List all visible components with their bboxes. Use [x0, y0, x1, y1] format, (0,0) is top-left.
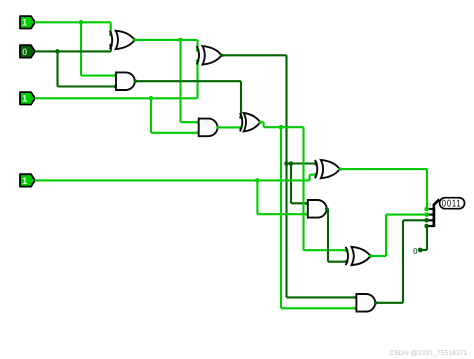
wire U7 output horizontal [369, 254, 386, 257]
svg-text:0: 0 [428, 203, 431, 209]
wire P0 branch to AND1 lower input [58, 85, 118, 89]
node junction on P1 wire [79, 20, 84, 25]
node junction on U5 output [279, 125, 284, 130]
wire U2 output down to XOR3 upper input [239, 81, 243, 119]
wire P2 horizontal [35, 97, 198, 99]
svg-text:1: 1 [22, 176, 28, 187]
wire U5x output elbow [325, 207, 329, 211]
wire dark elbow to AND6 upper input [287, 296, 358, 300]
node junction on dark horizontal [289, 161, 294, 166]
wire constant to splitter bit3 [420, 226, 427, 250]
input pin P2 value 1 [20, 92, 35, 105]
input pin P0 value 0 [20, 45, 35, 58]
wire dark branch to AND5 upper input [291, 202, 309, 206]
wire U5 output to XOR7 upper input [304, 249, 349, 253]
wire U2 output horizontal [134, 80, 241, 83]
and-gate U2 [116, 72, 135, 90]
wire P2 branch to AND2 lower input [151, 131, 200, 135]
wire U1 branch to AND2 upper input [181, 120, 201, 124]
wire dark branch down at x291 [290, 164, 292, 204]
splitter leg label 0 [428, 203, 431, 209]
wire P2 branch vertical at x151 [150, 98, 152, 133]
wire dark to XOR6 upper input [287, 162, 318, 166]
wire U1 output horizontal [134, 38, 198, 41]
svg-text:1: 1 [22, 18, 28, 29]
node splitter bit0 [424, 207, 429, 212]
node splitter bit2 [424, 218, 429, 223]
wire P3 riser elbow [310, 173, 318, 181]
svg-text:0: 0 [22, 47, 27, 58]
svg-text:CSDN @2201_75518371: CSDN @2201_75518371 [389, 350, 467, 357]
wire U3 output vertical at x286 [285, 55, 287, 297]
wire U5x output vertical [327, 209, 329, 262]
wire U8 output horizontal [374, 301, 403, 304]
svg-text:0011: 0011 [442, 198, 462, 209]
wire P0 horizontal [35, 50, 111, 52]
watermark text [389, 350, 467, 357]
wire P0 branch vertical at x57 [56, 51, 58, 86]
node junction on P0 wire [55, 49, 60, 54]
node junction on P2 wire [149, 96, 154, 101]
node junction on P3 wire [255, 178, 260, 183]
wire U1 branch vertical at x180 [179, 40, 181, 122]
wire P3 branch vertical at x257 [256, 180, 258, 214]
and-gate U8 [356, 294, 375, 312]
wire U5 output horizontal [264, 126, 304, 128]
node splitter bit1 [424, 212, 429, 217]
wire P1 branch down to XOR1 upper input [109, 22, 113, 36]
wire U5 output vertical at x303 [302, 127, 304, 250]
and-gate U4 [199, 119, 218, 137]
xor-gate U5 [240, 113, 260, 131]
svg-text:1: 1 [22, 94, 28, 105]
output display 0011 [440, 198, 465, 210]
wire U5 output elbow down [263, 122, 265, 127]
xor-gate U3 [197, 46, 222, 64]
node junction on U1 output [178, 38, 183, 43]
wire U7 output vertical at x386 [385, 215, 387, 256]
wire P3 branch to AND5 lower input [257, 212, 309, 216]
wire P1 branch to AND1 upper input [81, 74, 117, 78]
xor-gate U6 [315, 160, 340, 178]
wire U4 output to XOR3 lower input [216, 126, 242, 130]
and-gate U5x [308, 200, 327, 218]
wire U3 output horizontal [220, 54, 286, 57]
wire P1 branch vertical at x81 [80, 22, 82, 75]
input pin P1 value 1 [20, 16, 35, 29]
xor-gate U7 [346, 247, 371, 265]
wire U1 output down to XOR2 upper input [196, 40, 200, 52]
input pin P3 value 1 [20, 174, 35, 187]
node splitter bit3 [424, 224, 429, 229]
wire P1 horizontal [35, 21, 111, 23]
wire U7 output to splitter bit1 [386, 214, 427, 216]
svg-text:0: 0 [413, 246, 418, 256]
xor-gate U1 [110, 31, 135, 49]
wire U5x output to XOR7 lower input [328, 260, 348, 264]
wire U5 output stub [259, 121, 264, 124]
wire U8 output vertical at x403 [402, 220, 404, 302]
wire P0 riser to XOR1 lower input [109, 44, 113, 52]
wire U6 output vertical to splitter bit0 [426, 169, 428, 209]
node junction on x286 vertical upper [284, 161, 289, 166]
wire U5 branch vertical at x281 [280, 127, 282, 308]
wire U8 output to splitter bit2 [403, 219, 427, 221]
wire P3 horizontal [35, 179, 310, 181]
wire P2 riser to XOR2 lower input [196, 59, 200, 98]
splitter 4-bit fan [428, 199, 439, 227]
wire U6 output horizontal [339, 167, 428, 170]
wire U5 branch to AND6 lower input [281, 307, 358, 311]
constant 0 component [413, 246, 423, 256]
